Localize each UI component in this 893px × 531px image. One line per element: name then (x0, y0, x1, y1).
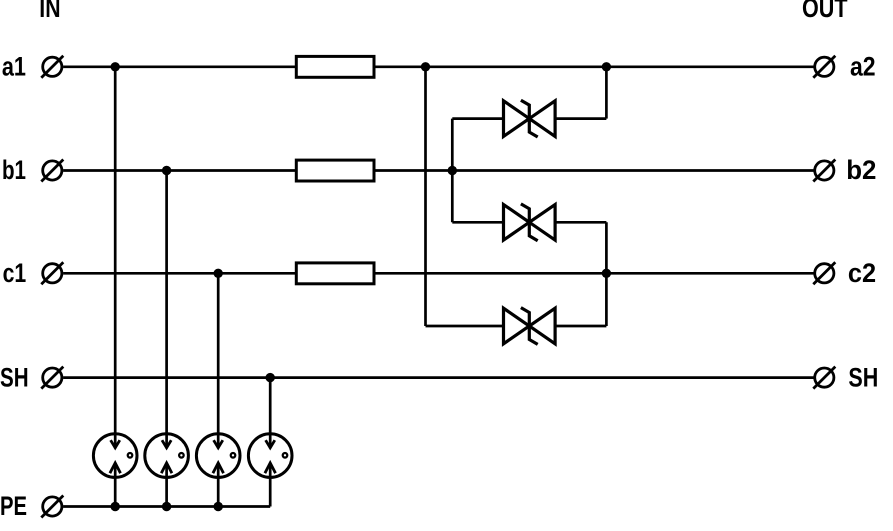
wire vertical D2 right to D3 right via c1 (605, 222, 608, 326)
gas discharge tube F1 (93, 434, 137, 478)
node a1-va (421, 62, 430, 71)
gas discharge tube F3 (196, 434, 240, 478)
wire vertical c1-PE (217, 273, 220, 506)
wire vertical a1-PE (114, 67, 117, 507)
wire c1 right (374, 272, 814, 275)
node PE-v2 (162, 502, 171, 511)
svg-text:PE: PE (0, 491, 27, 521)
wire vertical SH-PE (269, 378, 272, 507)
svg-text:b1: b1 (2, 155, 26, 185)
wire a1 left (63, 65, 296, 68)
terminal c1 (41, 262, 63, 284)
svg-text:a1: a1 (2, 51, 26, 81)
terminal SH-in (41, 367, 63, 389)
wire vertical b1-PE (165, 171, 168, 507)
svg-text:IN: IN (39, 0, 60, 23)
node PE-v1 (111, 502, 120, 511)
resistor R2 (296, 160, 374, 181)
svg-text:c2: c2 (848, 258, 876, 288)
node b1-v2 (162, 166, 171, 175)
suppressor diode D3 (504, 308, 556, 345)
wire b1 right (374, 169, 814, 172)
node c1-v3 (214, 269, 223, 278)
svg-text:c1: c1 (3, 258, 27, 288)
suppressor diode D1 (504, 100, 556, 137)
svg-text:b2: b2 (846, 155, 876, 185)
node SH-v4 (266, 373, 275, 382)
wire vertical D1 to D2 via b1 (451, 119, 454, 223)
node c1-vc (602, 269, 611, 278)
svg-text:SH: SH (848, 362, 878, 392)
resistor R1 (296, 56, 374, 77)
wire D3 right lead (555, 325, 607, 328)
wire D3 left lead (426, 325, 505, 328)
wire PE (63, 505, 270, 508)
wire vertical a1 to D1 right (605, 67, 608, 119)
terminal a1 (41, 56, 63, 78)
wire c1 left (63, 272, 296, 275)
svg-text:SH: SH (0, 362, 29, 392)
svg-text:a2: a2 (850, 51, 876, 81)
terminal b1 (41, 160, 63, 182)
gas discharge tube F2 (145, 434, 189, 478)
wire b1 left (63, 169, 296, 172)
suppressor diode D2 (504, 204, 556, 241)
wire D1 left lead (452, 117, 504, 120)
svg-text:OUT: OUT (802, 0, 848, 23)
wire D2 left lead (452, 221, 504, 224)
wire D1 right lead (555, 117, 607, 120)
wire a1 right (374, 65, 814, 68)
node b1-vb (448, 166, 457, 175)
node PE-v3 (214, 502, 223, 511)
terminal PE (41, 496, 63, 518)
terminal a2 (813, 56, 835, 78)
terminal b2 (813, 160, 835, 182)
node a1-vc (602, 62, 611, 71)
wire vertical a1 to D3 (424, 67, 427, 326)
resistor R3 (296, 263, 374, 284)
terminal c2 (813, 262, 835, 284)
gas discharge tube F4 (248, 434, 292, 478)
node a1-v1 (111, 62, 120, 71)
wire D2 right lead (555, 221, 607, 224)
wire SH (63, 376, 813, 379)
terminal SH-out (813, 367, 835, 389)
